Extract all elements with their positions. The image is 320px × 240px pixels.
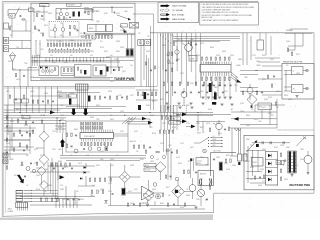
bl wires — [30, 158, 95, 180]
wire bundle diag — [231, 72, 242, 83]
svg-text:220: 220 — [40, 33, 43, 35]
resistor R601 — [173, 42, 174, 45]
IC101 bottom comps — [81, 143, 112, 146]
svg-text:100: 100 — [110, 55, 113, 57]
tuner hwire 3 — [32, 61, 121, 63]
svg-text:D698: D698 — [116, 41, 120, 43]
svg-text:T474: T474 — [60, 115, 64, 117]
svg-text:Q155: Q155 — [276, 91, 280, 93]
page right border — [313, 33, 315, 193]
svg-text:Q751: Q751 — [270, 59, 274, 61]
svg-text:220: 220 — [110, 115, 113, 117]
svg-text:Q398: Q398 — [222, 51, 226, 53]
svg-text:T507: T507 — [250, 145, 254, 147]
black arrow down1 — [71, 109, 76, 116]
wire to CN301 — [230, 128, 238, 156]
label box LB1 — [59, 94, 67, 98]
page bottom border — [2, 213, 213, 217]
svg-text:PHONES: PHONES — [286, 30, 293, 32]
svg-text:Q120: Q120 — [140, 203, 144, 205]
label box RECPB1 — [169, 117, 181, 121]
svg-text:R286: R286 — [170, 63, 174, 65]
label box LB3 — [14, 99, 29, 103]
svg-text:T282: T282 — [186, 105, 190, 107]
transistor Q102 — [88, 147, 92, 151]
svg-text:Q236: Q236 — [288, 99, 292, 101]
legend box — [158, 2, 199, 23]
svg-text:100: 100 — [130, 65, 133, 67]
svg-text:47MF: 47MF — [240, 111, 244, 113]
motor cap label — [206, 165, 210, 167]
resistor R20 — [118, 68, 119, 71]
svg-text:T545: T545 — [162, 123, 166, 125]
resistor R7 — [69, 26, 70, 29]
cap C5 — [113, 12, 116, 14]
relay D305 — [268, 178, 271, 182]
motor M1 circle — [197, 185, 204, 206]
resistor R8 — [74, 26, 75, 29]
svg-text:T509: T509 — [12, 69, 16, 71]
svg-text:~SM-1: ~SM-1 — [7, 209, 12, 211]
resistor R115 — [133, 145, 144, 148]
transistor Q211 — [156, 194, 161, 199]
resistor R605 — [165, 60, 173, 71]
svg-text:10K: 10K — [70, 55, 73, 57]
midright border v — [276, 99, 278, 128]
svg-text:470: 470 — [40, 115, 43, 117]
diag wire right — [297, 137, 307, 147]
svg-text:Q448: Q448 — [30, 91, 34, 93]
svg-text:TUNER PWB: TUNER PWB — [114, 77, 135, 81]
audio feed lines2 — [173, 39, 240, 42]
svg-text:Q353: Q353 — [284, 179, 288, 181]
svg-text:1K: 1K — [26, 185, 28, 187]
label midright — [231, 108, 234, 111]
wire left col — [4, 113, 36, 150]
svg-text:R769: R769 — [172, 127, 176, 129]
svg-text:R877: R877 — [200, 127, 204, 129]
legend label RADIO SIGNAL — [172, 5, 188, 8]
svg-text:Q391: Q391 — [262, 79, 266, 81]
IC601 top comps — [201, 57, 230, 60]
svg-text:C675: C675 — [78, 163, 82, 165]
right label wires — [288, 33, 303, 50]
svg-text:C915: C915 — [160, 143, 164, 145]
svg-text:50V UNLESS OTHERWISE SPECIFIED: 50V UNLESS OTHERWISE SPECIFIED — [202, 9, 232, 11]
svg-text:T593: T593 — [196, 199, 200, 201]
svg-text:B+: B+ — [23, 117, 25, 119]
arrow sig3 — [186, 125, 196, 129]
svg-text:RECTIFIER PWB: RECTIFIER PWB — [290, 183, 311, 187]
svg-text:JL: JL — [293, 71, 295, 73]
wire mr h2 — [255, 104, 285, 106]
diode D601 bar — [209, 83, 212, 92]
wire reg — [126, 193, 162, 204]
svg-text:Q118: Q118 — [92, 39, 96, 41]
svg-text:IC201: IC201 — [198, 161, 202, 163]
ribbon rows — [16, 191, 32, 202]
IC101 top pins — [82, 130, 113, 133]
connector CN301b — [243, 154, 247, 161]
T301 frame — [288, 151, 297, 173]
svg-text:R664: R664 — [246, 115, 250, 117]
cap C9 — [77, 29, 79, 32]
svg-text:M501: M501 — [206, 165, 210, 167]
svg-text:L201 T201: L201 T201 — [213, 150, 221, 152]
svg-text:T183: T183 — [90, 51, 94, 53]
svg-text:47MF: 47MF — [176, 59, 180, 61]
mid verticals — [161, 105, 177, 130]
filter bar CF2 — [106, 67, 108, 72]
svg-text:CD SIGNAL: CD SIGNAL — [172, 9, 184, 12]
wire diag osc — [117, 15, 131, 20]
resistor R616 — [291, 52, 292, 55]
svg-text:L290: L290 — [34, 61, 38, 63]
motor M301 — [304, 151, 312, 169]
jack R box — [292, 85, 304, 93]
jack PWB label — [283, 60, 302, 63]
IC101 bottom pins — [82, 139, 113, 142]
legend arrow RADIO — [161, 4, 170, 7]
svg-text:220: 220 — [10, 35, 13, 37]
svg-text:0.01: 0.01 — [250, 179, 253, 181]
svg-text:TUN: TUN — [213, 142, 216, 144]
svg-text:R384: R384 — [210, 47, 214, 49]
svg-text:R411: R411 — [14, 175, 18, 177]
diamond DB1 — [39, 131, 49, 142]
resistor R604 — [171, 52, 172, 55]
parts row y150 — [145, 150, 177, 153]
page border bottom-right horizontal — [214, 192, 314, 194]
svg-text:47MF: 47MF — [196, 55, 200, 57]
left edge border2 — [4, 150, 6, 213]
svg-text:Q583: Q583 — [100, 189, 104, 191]
resistor R206 — [230, 159, 231, 162]
svg-text:C466: C466 — [286, 41, 290, 43]
label RECTIFIER PWB — [290, 183, 311, 187]
svg-text:C952: C952 — [280, 145, 284, 147]
label power sw — [276, 161, 284, 165]
svg-text:R555: R555 — [274, 147, 278, 149]
svg-text:C901: C901 — [246, 161, 250, 163]
wire bend NE — [122, 117, 136, 124]
gnd mid rect — [283, 160, 286, 167]
svg-text:100MF: 100MF — [256, 65, 261, 67]
small pot VR201 — [203, 149, 207, 153]
svg-text:C816: C816 — [80, 199, 84, 201]
resistor R13 — [81, 36, 84, 37]
svg-text:Q364: Q364 — [44, 169, 48, 171]
transistor Q603 — [247, 84, 253, 100]
svg-text:33K: 33K — [250, 107, 253, 109]
tuner left verticals — [33, 55, 40, 66]
svg-text:D430: D430 — [208, 109, 212, 111]
connector CN101 — [76, 84, 89, 90]
svg-text:47MF: 47MF — [120, 47, 124, 49]
page bottom shadow — [0, 214, 213, 220]
svg-text:Q735: Q735 — [240, 103, 244, 105]
transistor Q101 — [74, 149, 78, 153]
page outer border left — [1, 2, 3, 217]
svg-text:0.01: 0.01 — [130, 119, 133, 121]
svg-text:Q250: Q250 — [264, 99, 268, 101]
CN101 gather wire — [66, 106, 126, 108]
black bar M1 — [212, 102, 216, 105]
power sub box — [211, 153, 237, 177]
svg-text:CD: CD — [213, 136, 215, 138]
rectifier PWB box — [244, 135, 314, 190]
svg-text:220: 220 — [50, 55, 53, 57]
relay D303 — [268, 162, 271, 166]
svg-text:Q360: Q360 — [36, 11, 40, 13]
svg-text:2.2K: 2.2K — [170, 131, 173, 133]
svg-text:100: 100 — [168, 195, 171, 197]
svg-text:D365: D365 — [178, 163, 182, 165]
tuner parts row B dots — [49, 47, 86, 50]
wire mr vert — [255, 105, 270, 125]
svg-text:0.01: 0.01 — [90, 55, 93, 57]
svg-text:L971: L971 — [40, 49, 44, 51]
mid verticals low — [164, 130, 170, 155]
left edge jack D — [3, 159, 8, 164]
svg-text:C786: C786 — [186, 123, 190, 125]
label box LB6 — [144, 168, 156, 172]
svg-text:L300: L300 — [166, 109, 170, 111]
svg-text:R510: R510 — [254, 119, 258, 121]
diode D602 bar — [214, 93, 217, 100]
svg-text:RADIO SIGNAL: RADIO SIGNAL — [172, 5, 188, 8]
arrow sig1 — [176, 112, 187, 116]
connector CN301a — [238, 154, 242, 161]
svg-text:220: 220 — [196, 163, 199, 165]
audio bus joints — [160, 35, 171, 44]
cap C220 — [195, 171, 197, 174]
svg-text:T947: T947 — [96, 119, 100, 121]
svg-text:0.022: 0.022 — [176, 157, 180, 159]
band sw box2 — [106, 25, 113, 32]
balun T1 — [9, 14, 15, 19]
black bar BB4 — [138, 105, 141, 110]
relay dividers — [266, 160, 278, 176]
resistor R104 — [19, 130, 33, 133]
page inner border top — [4, 2, 157, 4]
resistor R611 — [256, 91, 257, 94]
antenna symbol — [10, 53, 16, 71]
mpx small boxes — [138, 40, 151, 46]
black arrow up D101 — [60, 133, 65, 155]
svg-text:D766: D766 — [58, 127, 62, 129]
svg-text:R268: R268 — [180, 207, 184, 209]
svg-text:TUN UNIT: TUN UNIT — [68, 5, 75, 7]
CN102 pins — [17, 208, 28, 211]
audio bus verticals — [161, 33, 171, 112]
svg-text:D267: D267 — [268, 113, 272, 115]
svg-text:T782: T782 — [40, 19, 44, 21]
svg-text:D946: D946 — [146, 105, 150, 107]
svg-text:1K: 1K — [276, 185, 278, 187]
wire bridge col — [36, 124, 44, 196]
svg-text:L472: L472 — [258, 121, 262, 123]
diode D210 — [250, 106, 252, 108]
svg-text:Q628: Q628 — [24, 125, 28, 127]
tuning cap C110 — [83, 148, 85, 151]
svg-text:R418: R418 — [88, 43, 92, 45]
svg-text:R368: R368 — [10, 121, 14, 123]
black arrow right b — [60, 175, 65, 179]
connector CN102 — [16, 203, 28, 208]
svg-text:IC101 LA1787: IC101 LA1787 — [84, 135, 95, 138]
FM ant jack — [3, 38, 9, 44]
svg-text:0.022: 0.022 — [250, 157, 254, 159]
wire dc — [135, 180, 196, 206]
svg-text:Q452: Q452 — [300, 159, 304, 161]
svg-text:D942: D942 — [160, 99, 164, 101]
rect wires grid — [246, 146, 266, 183]
bm extra parts — [127, 203, 140, 206]
tuner box row box2 — [61, 67, 74, 76]
function switch S201 — [194, 132, 209, 147]
jack PWB box — [282, 64, 314, 100]
resistor R108 — [19, 143, 27, 148]
gnd M301 — [307, 169, 309, 174]
upper mid box — [255, 33, 280, 62]
diode D3 — [46, 66, 48, 68]
IC601 label — [205, 62, 217, 65]
right verticals — [243, 33, 251, 65]
svg-text:C644: C644 — [30, 77, 34, 79]
page step border right-bottom — [213, 193, 215, 212]
svg-text:C627: C627 — [180, 73, 184, 75]
cap row bottom — [67, 198, 80, 201]
IFT3 core — [126, 34, 129, 56]
svg-text:C733: C733 — [34, 163, 38, 165]
label box TU-2 — [67, 3, 82, 6]
svg-text:T204: T204 — [234, 85, 238, 87]
label box RECPB2 — [169, 121, 181, 125]
jack L pin — [303, 69, 308, 72]
left area wires — [4, 131, 34, 154]
legend label AUX SIGNAL — [172, 14, 185, 17]
svg-text:Q308: Q308 — [48, 13, 52, 15]
ribbon out wires — [31, 190, 58, 202]
cap bank C610 — [202, 84, 232, 87]
signal arrow main — [50, 111, 55, 115]
gnd reg — [146, 205, 149, 207]
left edge jack C — [3, 153, 8, 158]
bend arrow E2 — [148, 121, 153, 125]
svg-text:D227: D227 — [296, 54, 300, 56]
bridge leads — [108, 165, 140, 189]
svg-text:R247: R247 — [224, 91, 228, 93]
svg-text:470: 470 — [150, 127, 153, 129]
svg-text:C660: C660 — [232, 165, 236, 167]
cap C20 — [19, 15, 22, 17]
band sw box — [88, 25, 106, 32]
svg-text:T523: T523 — [270, 115, 274, 117]
svg-text:R915: R915 — [44, 25, 48, 27]
svg-text:1K: 1K — [296, 165, 298, 167]
svg-text:0.022: 0.022 — [128, 191, 132, 193]
svg-text:R647: R647 — [226, 155, 230, 157]
svg-text:2.2K: 2.2K — [16, 47, 19, 49]
resistor R106 — [71, 133, 72, 136]
label SM — [7, 209, 13, 214]
svg-text:CD-A30: CD-A30 — [7, 210, 13, 213]
svg-text:TP1: TP1 — [138, 33, 141, 35]
arrow left feed — [234, 117, 239, 121]
svg-text:C259: C259 — [134, 131, 138, 133]
resistor R105 — [66, 133, 67, 136]
IC301 box — [252, 158, 264, 167]
svg-text:L451: L451 — [16, 79, 20, 81]
tuner PWB box — [31, 3, 135, 81]
svg-text:C237: C237 — [120, 131, 124, 133]
motor label — [205, 200, 207, 202]
tuner parts row B — [49, 50, 89, 53]
tiny reference labels texture — [6, 11, 304, 209]
svg-text:Q308: Q308 — [152, 189, 156, 191]
svg-text:470: 470 — [40, 155, 43, 157]
svg-text:PS30: PS30 — [277, 163, 281, 165]
legend label CD SIGNAL — [172, 9, 184, 12]
svg-text:C419: C419 — [110, 81, 114, 83]
svg-text:L846: L846 — [190, 39, 194, 41]
cap C106 — [70, 145, 72, 148]
IC601 pins top — [202, 62, 232, 65]
legend label MAIN SIGNAL — [172, 18, 186, 21]
svg-text:T849: T849 — [162, 45, 166, 47]
svg-text:B.SW: B.SW — [89, 28, 93, 30]
cap C25 — [23, 75, 25, 78]
IC peripheral box — [66, 121, 128, 152]
mid comps — [137, 92, 156, 95]
svg-text:L133: L133 — [86, 35, 90, 37]
legend arrow MAIN — [161, 17, 170, 20]
cap C101 — [32, 121, 34, 124]
svg-text:Q975: Q975 — [122, 71, 126, 73]
diamond DC — [143, 190, 154, 201]
svg-text:T380: T380 — [246, 139, 250, 141]
svg-text:R562: R562 — [160, 203, 164, 205]
svg-text:1K: 1K — [166, 55, 168, 57]
svg-text:D628: D628 — [150, 115, 154, 117]
jack R pin — [303, 87, 308, 90]
resistor R9 — [69, 32, 70, 35]
svg-text:4.7K: 4.7K — [86, 155, 89, 157]
svg-text:D717: D717 — [152, 101, 156, 103]
svg-text:L581: L581 — [58, 149, 62, 151]
svg-text:L158: L158 — [36, 55, 40, 57]
svg-text:L990: L990 — [34, 29, 38, 31]
svg-text:R841: R841 — [16, 109, 20, 111]
wire diag if — [120, 26, 127, 33]
svg-text:Q253: Q253 — [230, 55, 234, 57]
bl texture parts — [51, 163, 73, 169]
legend arrow AUX — [161, 13, 170, 16]
label box TU-1 — [40, 4, 50, 8]
IFT1 core — [73, 12, 75, 17]
svg-text:Q502: Q502 — [36, 175, 40, 177]
IFT4 core — [130, 34, 133, 56]
svg-text:R574: R574 — [64, 167, 68, 169]
buffer box — [189, 56, 197, 62]
resistor R4 — [88, 12, 89, 15]
label L201 — [213, 150, 221, 152]
diamond DA — [155, 162, 166, 173]
svg-text:D191: D191 — [100, 47, 104, 49]
tuner topleft parts — [33, 8, 48, 22]
svg-text:D130: D130 — [50, 30, 54, 32]
